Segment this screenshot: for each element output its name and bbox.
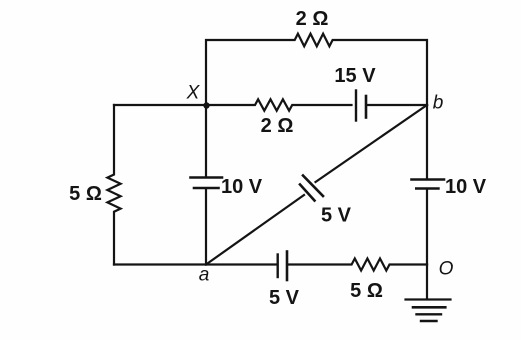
svg-text:5 Ω: 5 Ω xyxy=(350,280,383,302)
svg-text:O: O xyxy=(439,259,454,280)
svg-text:X: X xyxy=(186,83,201,104)
svg-text:10 V: 10 V xyxy=(221,176,263,198)
svg-text:10 V: 10 V xyxy=(445,176,487,198)
svg-text:5 V: 5 V xyxy=(269,287,300,309)
svg-text:b: b xyxy=(433,93,444,114)
svg-text:5 Ω: 5 Ω xyxy=(69,183,102,205)
svg-text:2 Ω: 2 Ω xyxy=(296,8,329,30)
svg-text:a: a xyxy=(199,265,210,286)
svg-text:2 Ω: 2 Ω xyxy=(261,115,294,137)
svg-text:15 V: 15 V xyxy=(334,65,376,87)
svg-text:5 V: 5 V xyxy=(321,205,352,227)
